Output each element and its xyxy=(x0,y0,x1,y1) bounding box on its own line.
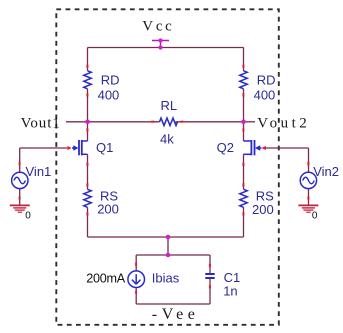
wire Ibias lower xyxy=(135,287,137,304)
ground (Vin2) xyxy=(298,205,318,212)
svg-text:1n: 1n xyxy=(223,284,237,299)
wire Q1 gate to Vin1 xyxy=(20,148,67,172)
svg-text:C1: C1 xyxy=(224,270,241,285)
resistor RL xyxy=(160,118,178,125)
svg-text:200: 200 xyxy=(97,202,119,217)
transistor Q1 xyxy=(67,128,113,166)
current source Ibias xyxy=(86,263,179,294)
wire left source xyxy=(87,154,89,237)
wire left drain upper xyxy=(87,48,89,71)
resistor RS (right) xyxy=(240,189,247,207)
svg-text:RL: RL xyxy=(161,98,178,113)
wire top rail xyxy=(88,47,244,49)
wire bias bottom rail xyxy=(136,303,210,305)
svg-text:Vin2: Vin2 xyxy=(313,164,339,179)
svg-text:0: 0 xyxy=(25,210,31,221)
svg-text:Q1: Q1 xyxy=(96,140,113,155)
power symbol Vcc xyxy=(152,41,169,48)
wire Vin1 to ground xyxy=(19,189,21,205)
wire RL to right xyxy=(176,121,244,123)
svg-text:Vout2: Vout2 xyxy=(257,115,310,131)
svg-text:400: 400 xyxy=(98,87,120,102)
wire Ibias upper xyxy=(135,255,137,271)
wire C1 lower xyxy=(209,279,211,304)
wire Q2 gate to Vin2 xyxy=(266,148,309,172)
node Vout2 xyxy=(241,120,246,125)
svg-text:RD: RD xyxy=(257,72,276,87)
wire Vin2 to ground xyxy=(308,189,310,205)
wire tail rail xyxy=(88,236,244,238)
wire right source xyxy=(243,154,245,237)
node Vout1 xyxy=(85,120,90,125)
wire Vout2 stub xyxy=(244,121,256,123)
svg-text:0: 0 xyxy=(312,210,318,221)
wire left drain lower xyxy=(87,89,89,141)
svg-text:200mA: 200mA xyxy=(86,272,126,286)
wire bias top rail xyxy=(136,254,210,256)
svg-text:Q2: Q2 xyxy=(217,140,234,155)
svg-text:Vcc: Vcc xyxy=(142,18,174,34)
svg-text:200: 200 xyxy=(252,202,274,217)
svg-text:4k: 4k xyxy=(160,132,174,147)
wire right drain upper xyxy=(243,48,245,71)
resistor RD (right) xyxy=(240,71,247,89)
svg-text:RD: RD xyxy=(101,72,120,87)
svg-text:400: 400 xyxy=(254,87,276,102)
node bias junction xyxy=(166,253,171,258)
svg-text:Vin1: Vin1 xyxy=(26,164,52,179)
resistor RS (left) xyxy=(84,189,91,207)
source Vin2 xyxy=(300,162,339,200)
source Vin1 xyxy=(12,162,52,200)
node tail junction xyxy=(166,235,171,240)
svg-text:Ibias: Ibias xyxy=(152,271,180,286)
transistor Q2 xyxy=(217,128,266,166)
resistor RD (left) xyxy=(84,71,91,89)
ground (Vin1) xyxy=(10,205,30,212)
wire Vout1 stub xyxy=(66,121,88,123)
capacitor C1 xyxy=(205,264,240,299)
wire C1 upper xyxy=(209,255,211,273)
svg-text:-Vee: -Vee xyxy=(152,306,200,323)
wire right drain lower xyxy=(243,89,245,141)
wire tail stem xyxy=(167,237,169,255)
wire mid left to RL xyxy=(88,121,160,123)
svg-text:Vout1: Vout1 xyxy=(21,115,61,131)
